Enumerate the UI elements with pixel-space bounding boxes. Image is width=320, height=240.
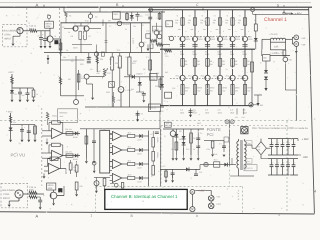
svg-text:Obs: Termicas mudadas com 100W: Obs: Termicas mudadas com 100W ou nada d… <box>252 127 308 130</box>
svg-text:100R: 100R <box>151 78 156 81</box>
svg-text:+ LED: + LED <box>198 189 205 192</box>
svg-text:b: b <box>198 30 199 33</box>
svg-text:PCI VU: PCI VU <box>11 153 26 158</box>
svg-text:5W: 5W <box>222 89 225 92</box>
svg-text:- 86V: - 86V <box>302 156 308 159</box>
svg-text:1943: 1943 <box>218 111 222 114</box>
svg-text:5W: 5W <box>235 89 238 92</box>
svg-text:1Meg: 1Meg <box>52 115 57 118</box>
svg-text:5W: 5W <box>197 63 200 66</box>
svg-text:C2: C2 <box>62 26 64 29</box>
svg-text:1943: 1943 <box>180 111 184 114</box>
svg-text:+ 8R: + 8R <box>301 37 306 40</box>
svg-text:560R: 560R <box>73 47 78 50</box>
svg-text:2k: 2k <box>125 28 127 31</box>
svg-text:RLY: RLY <box>214 158 218 161</box>
svg-text:22k: 22k <box>79 185 82 188</box>
svg-text:+ 8R: + 8R <box>301 43 306 46</box>
svg-text:A-5: A-5 <box>230 109 233 112</box>
svg-text:A: A <box>36 214 39 219</box>
svg-text:5W: 5W <box>222 63 225 66</box>
svg-text:+ 5M: + 5M <box>258 104 263 107</box>
svg-text:0R33: 0R33 <box>235 87 240 90</box>
svg-text:R0: R0 <box>175 22 177 25</box>
svg-text:D8: D8 <box>179 130 181 133</box>
svg-text:4148: 4148 <box>137 152 141 155</box>
svg-text:Q7: Q7 <box>152 31 155 34</box>
svg-text:5: 5 <box>277 3 279 7</box>
svg-text:1943: 1943 <box>230 111 234 114</box>
svg-text:0R33: 0R33 <box>247 87 252 90</box>
svg-text:0.33uF: 0.33uF <box>131 38 134 45</box>
svg-text:R0: R0 <box>200 22 202 25</box>
svg-text:4148: 4148 <box>137 180 141 183</box>
svg-text:Prim: Prim <box>247 142 251 145</box>
svg-text:C8: C8 <box>141 24 143 27</box>
svg-text:1943: 1943 <box>205 111 209 114</box>
svg-text:5200: 5200 <box>223 38 227 41</box>
svg-text:1k: 1k <box>87 23 89 26</box>
svg-text:15k: 15k <box>200 19 203 22</box>
svg-text:b: b <box>248 30 249 33</box>
svg-text:C104 100n: C104 100n <box>270 52 280 55</box>
svg-text:b: b <box>223 30 224 33</box>
svg-text:2k2: 2k2 <box>128 174 131 177</box>
svg-text:10u: 10u <box>171 148 174 151</box>
svg-text:dual: dual <box>59 115 63 118</box>
svg-text:Q5: Q5 <box>144 41 146 44</box>
svg-text:15k: 15k <box>213 19 216 22</box>
svg-text:22k: 22k <box>100 58 103 61</box>
svg-text:2SA970: 2SA970 <box>123 23 130 26</box>
svg-text:5W: 5W <box>210 89 213 92</box>
svg-text:0: 0 <box>196 214 198 218</box>
svg-text:0R33: 0R33 <box>222 87 227 90</box>
svg-text:MJE15: MJE15 <box>150 107 157 110</box>
svg-text:PRT: PRT <box>217 203 222 206</box>
svg-text:NE5532: NE5532 <box>59 112 68 115</box>
svg-text:10k 1%: 10k 1% <box>65 128 72 131</box>
svg-text:5W: 5W <box>235 63 238 66</box>
svg-text:D6: D6 <box>143 68 145 71</box>
svg-text:BAL/UNBAL: BAL/UNBAL <box>4 30 18 33</box>
svg-text:+ 86V: + 86V <box>302 138 309 141</box>
svg-text:0R33: 0R33 <box>210 87 215 90</box>
svg-text:15k: 15k <box>238 19 241 22</box>
svg-text:5200: 5200 <box>211 38 215 41</box>
svg-text:INPUT: INPUT <box>4 38 12 41</box>
svg-text:10u: 10u <box>13 121 16 124</box>
svg-text:A-5: A-5 <box>218 109 221 112</box>
svg-text:4: 4 <box>314 190 316 194</box>
svg-text:10k: 10k <box>133 25 136 28</box>
svg-text:1k: 1k <box>74 23 76 26</box>
svg-text:R6: R6 <box>71 35 73 38</box>
svg-text:VR50k: VR50k <box>156 137 159 143</box>
svg-text:2k: 2k <box>193 137 195 140</box>
svg-text:Gain32: Gain32 <box>153 28 159 31</box>
svg-text:R0: R0 <box>238 22 240 25</box>
svg-text:+15: +15 <box>166 122 169 125</box>
svg-text:XTRA: XTRA <box>4 34 11 37</box>
svg-text:C7: C7 <box>109 25 111 28</box>
svg-text:4148: 4148 <box>137 166 141 169</box>
svg-text:0R33: 0R33 <box>185 87 190 90</box>
svg-text:R05: R05 <box>164 53 167 56</box>
svg-text:A-5: A-5 <box>205 109 208 112</box>
svg-text:BAL/UNBAL: BAL/UNBAL <box>2 189 16 192</box>
svg-text:GND: GND <box>213 153 218 156</box>
svg-text:5200: 5200 <box>236 38 240 41</box>
svg-text:R0: R0 <box>188 22 190 25</box>
svg-text:+7M 40C: +7M 40C <box>269 33 278 36</box>
svg-text:ON: ON <box>217 196 221 199</box>
svg-text:Channel 1: Channel 1 <box>264 17 287 23</box>
svg-text:C3: C3 <box>140 15 142 18</box>
svg-text:R7: R7 <box>89 35 91 38</box>
svg-text:A: A <box>36 2 39 7</box>
svg-text:D1: D1 <box>66 49 68 52</box>
svg-text:Z15: Z15 <box>186 148 189 151</box>
svg-text:5200: 5200 <box>186 38 190 41</box>
svg-text:Channel B: Identical as Chann: Channel B: Identical as Channel 1 <box>111 194 178 199</box>
svg-text:R0: R0 <box>213 22 215 25</box>
svg-text:15k: 15k <box>188 19 191 22</box>
svg-text:Q11: Q11 <box>172 87 175 90</box>
svg-text:R1: R1 <box>69 15 71 18</box>
svg-text:MR16: MR16 <box>48 184 55 187</box>
svg-text:10k 1%: 10k 1% <box>65 150 72 153</box>
svg-text:1N4007: 1N4007 <box>136 72 144 75</box>
svg-text:MR16: MR16 <box>46 22 53 25</box>
svg-text:5W: 5W <box>247 63 250 66</box>
svg-text:5200: 5200 <box>198 38 202 41</box>
svg-text:+ lead: + lead <box>6 110 13 113</box>
svg-text:BD: BD <box>264 57 267 60</box>
svg-text:0R33: 0R33 <box>197 87 202 90</box>
svg-text:10k: 10k <box>81 77 84 80</box>
svg-text:10R: 10R <box>274 45 279 48</box>
svg-text:REG: REG <box>197 122 202 125</box>
svg-text:b: b <box>236 30 237 33</box>
svg-text:5W: 5W <box>185 63 188 66</box>
svg-text:C18 1u: C18 1u <box>29 25 37 28</box>
svg-text:C10: C10 <box>145 14 148 17</box>
svg-text:4148: 4148 <box>137 138 141 141</box>
svg-text:1k: 1k <box>36 93 38 96</box>
svg-text:0n3: 0n3 <box>165 71 168 74</box>
svg-text:Sec: Sec <box>247 160 250 163</box>
svg-text:A-5: A-5 <box>180 109 183 112</box>
svg-text:2k2: 2k2 <box>128 146 131 149</box>
svg-text:+50V: +50V <box>8 71 14 74</box>
svg-text:b: b <box>211 30 212 33</box>
svg-text:XTRA: XTRA <box>3 193 10 196</box>
svg-text:5W: 5W <box>197 89 200 92</box>
svg-text:+ 86V: + 86V <box>294 13 301 16</box>
svg-text:15k: 15k <box>175 19 178 22</box>
svg-text:PCI: PCI <box>207 132 214 137</box>
svg-text:10u: 10u <box>63 56 66 59</box>
svg-text:1k: 1k <box>68 31 70 34</box>
svg-text:5200: 5200 <box>248 38 252 41</box>
svg-text:R23: R23 <box>80 63 83 66</box>
svg-text:1k: 1k <box>193 148 195 151</box>
svg-text:Pnt: Pnt <box>257 145 260 148</box>
svg-text:REG: REG <box>114 13 119 16</box>
svg-text:1: 1 <box>91 213 93 217</box>
svg-text:2k2: 2k2 <box>128 160 131 163</box>
svg-text:R0: R0 <box>225 22 227 25</box>
svg-text:15k: 15k <box>225 19 228 22</box>
svg-text:Z5: Z5 <box>37 34 39 37</box>
svg-text:R33: R33 <box>155 85 158 88</box>
svg-text:VR50k: VR50k <box>156 152 159 158</box>
svg-text:5W: 5W <box>185 89 188 92</box>
svg-text:Q1: Q1 <box>95 16 98 19</box>
svg-text:5W: 5W <box>247 89 250 92</box>
svg-text:Q9: Q9 <box>109 58 112 61</box>
svg-text:110/220: 110/220 <box>245 167 253 170</box>
svg-text:47p: 47p <box>146 30 149 33</box>
svg-text:470R: 470R <box>116 99 121 102</box>
svg-text:C6: C6 <box>71 60 73 63</box>
svg-text:INPUT: INPUT <box>3 197 11 200</box>
svg-text:C18 1u: C18 1u <box>29 186 37 189</box>
svg-text:b: b <box>186 30 187 33</box>
svg-text:5W: 5W <box>210 63 213 66</box>
svg-text:2k2: 2k2 <box>128 132 131 135</box>
svg-text:1943: 1943 <box>243 111 247 114</box>
